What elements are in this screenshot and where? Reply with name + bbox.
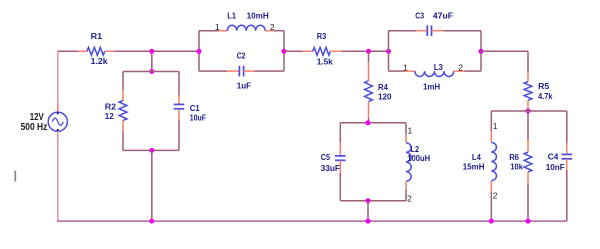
inductor L3 [415,71,454,76]
wire top rail R1 to L1/C2 box [115,50,199,52]
pin L1 pin2 lead [265,30,274,32]
pin C1 bottom lead [178,109,180,120]
svg-text:R3: R3 [317,31,327,41]
wire node C to bottom rail [151,150,153,221]
wire top rail left segment [57,50,77,52]
svg-text:2: 2 [407,193,412,203]
svg-text:R5: R5 [538,81,549,91]
resistor R6 [524,152,532,172]
pin C2 right lead [244,70,255,72]
wire C3 top edge left [389,30,417,32]
wire left rail upper [57,51,59,113]
pin R2 bottom lead [122,121,124,132]
pin C5 top lead [339,143,341,156]
wire top rail box to R3 [284,50,302,52]
pin L2 pin2 lead [405,181,407,189]
pin C5 bottom lead [339,160,341,173]
resistor R3 [313,47,331,55]
node C junction dot [149,148,154,153]
node E junction dot [197,49,202,54]
wire R6 branch upper [527,111,529,140]
wire L4/R6/C4 box top edge [491,110,567,112]
capacitor C5 [335,155,346,157]
wire R4 branch lower [368,118,370,123]
wire C3/L3 box left edge [388,31,390,71]
pin R4 top lead [368,62,370,81]
node L junction dot [366,198,371,203]
pin R6 bottom lead [527,172,529,184]
svg-text:1.2k: 1.2k [91,56,108,66]
wire node A vertical [151,51,153,71]
wire R2/C1 box top edge [123,71,179,73]
svg-text:33uF: 33uF [321,163,340,173]
node F junction dot [282,49,287,54]
svg-text:4.7k: 4.7k [538,91,553,101]
svg-text:15mH: 15mH [463,162,485,172]
AC source V1 circle [48,112,67,131]
pin R1 right lead [105,50,115,52]
inductor L4 [491,142,496,180]
node O junction dot on bottom rail [526,219,531,224]
capacitor C1 [174,103,185,105]
capacitor C2 [238,66,240,77]
svg-text:1: 1 [493,121,498,131]
wire top rail R3 to C3/L3 box [342,50,389,52]
node J junction dot [526,109,531,114]
wire R2 branch lower [122,131,124,150]
wire L2 branch upper [405,123,407,135]
svg-text:R4: R4 [378,82,388,92]
wire C5 branch upper [339,123,341,143]
wire C5/L2 box bottom edge [340,200,406,202]
svg-text:C5: C5 [321,152,330,162]
capacitor C3 [426,25,428,36]
pin V1 bottom lead [57,131,59,140]
svg-text:1.5k: 1.5k [317,57,333,67]
pin L1 pin1 lead [219,30,228,32]
svg-text:C1: C1 [190,103,200,113]
pin C2 left lead [227,70,239,72]
capacitor C4 [562,153,573,155]
wire R6 branch lower [527,184,529,221]
svg-text:1: 1 [403,63,408,73]
wire C2 bottom edge right [255,70,285,72]
resistor R2 [119,101,127,121]
pin L2 pin1 lead [405,135,407,143]
pin C3 right lead [432,30,444,32]
wire L2 branch lower [405,189,407,200]
node M junction dot on bottom rail [366,219,371,224]
svg-text:L3: L3 [434,62,443,72]
pin R3 right lead [330,50,341,52]
pin R6 top lead [527,140,529,152]
cursor I-beam mark [14,171,16,182]
wire L1 top edge right [274,30,284,32]
wire bottom rail [57,220,567,222]
wire L1 top edge left [199,30,219,32]
node D junction dot on bottom rail [149,219,154,224]
svg-text:12: 12 [105,111,114,121]
svg-text:2: 2 [270,22,275,32]
node H junction dot [386,49,391,54]
wire L1/C2 box left edge [198,31,200,71]
svg-text:10uF: 10uF [190,113,206,123]
node N junction dot on bottom rail [489,219,494,224]
pin C4 bottom lead [566,159,568,170]
wire R5 branch lower [527,110,529,111]
pin R3 left lead [302,50,313,52]
wire L3 bottom edge right [465,70,482,72]
svg-text:R1: R1 [91,31,103,41]
inductor L2 [406,143,411,182]
svg-text:1mH: 1mH [423,82,440,92]
pin R5 top lead [527,72,529,82]
pin C4 top lead [566,143,568,154]
svg-text:C2: C2 [237,50,246,60]
node I junction dot [479,49,484,54]
wire R4 branch upper [368,51,370,62]
wire R2 branch upper [122,72,124,91]
wire C5 branch lower [339,173,341,201]
wire top rail right segment [481,50,528,52]
svg-text:500 Hz: 500 Hz [21,122,48,133]
wire left rail lower [57,131,59,222]
pin L4 pin2 lead [490,181,492,192]
svg-text:2: 2 [493,190,498,200]
pin L4 pin1 lead [490,131,492,142]
svg-text:100uH: 100uH [407,153,430,163]
pin L3 pin2 lead [454,70,465,72]
svg-text:1: 1 [408,126,413,136]
wire node L to bottom rail [367,201,369,221]
pin R4 bottom lead [368,102,370,118]
wire R2/C1 box bottom edge [123,149,179,151]
node B junction dot [149,69,154,74]
svg-text:47uF: 47uF [433,11,453,21]
inductor L1 [227,25,265,30]
svg-text:10nF: 10nF [546,162,565,172]
node A junction dot [149,49,154,54]
wire L1/C2 box right edge [283,31,285,71]
svg-text:1: 1 [215,22,220,32]
resistor R5 [524,82,532,101]
svg-text:C3: C3 [415,11,424,21]
pin V1 top lead [57,103,59,112]
pin R2 top lead [122,90,124,101]
pin C3 left lead [416,30,427,32]
wire R5 branch upper [527,51,529,72]
svg-text:R2: R2 [105,101,117,111]
wire C3 top edge right [443,30,481,32]
pin R5 bottom lead [527,100,529,110]
wire L3 bottom edge left [389,70,405,72]
wire C4 branch upper [566,111,568,143]
svg-text:C4: C4 [548,152,559,162]
wire C3/L3 box right edge [480,31,482,71]
wire C5/L2 box top edge [340,122,406,124]
resistor R4 [365,81,373,102]
wire C1 branch lower [178,120,180,150]
svg-text:L1: L1 [227,11,236,21]
svg-text:10k: 10k [510,162,523,172]
AC source V1 sine [52,118,63,125]
AC source V1 top terminal dot [57,112,59,114]
svg-text:10mH: 10mH [247,11,269,21]
wire L4 branch upper [490,111,492,131]
svg-text:L4: L4 [472,152,481,162]
wire C4 branch lower [566,170,568,221]
svg-text:1uF: 1uF [237,81,251,91]
AC source V1 bottom terminal dot [57,129,59,131]
node G junction dot [366,49,371,54]
svg-text:120: 120 [378,92,392,102]
wire L4 branch lower [490,192,492,221]
svg-text:R6: R6 [509,152,519,162]
pin R1 left lead [78,50,88,52]
resistor R1 [87,47,105,55]
pin C1 top lead [178,95,180,104]
wire C2 bottom edge left [199,70,227,72]
svg-text:2: 2 [458,63,463,73]
node K junction dot [366,120,371,125]
pin L3 pin1 lead [405,70,415,72]
wire C1 branch upper [178,72,180,96]
